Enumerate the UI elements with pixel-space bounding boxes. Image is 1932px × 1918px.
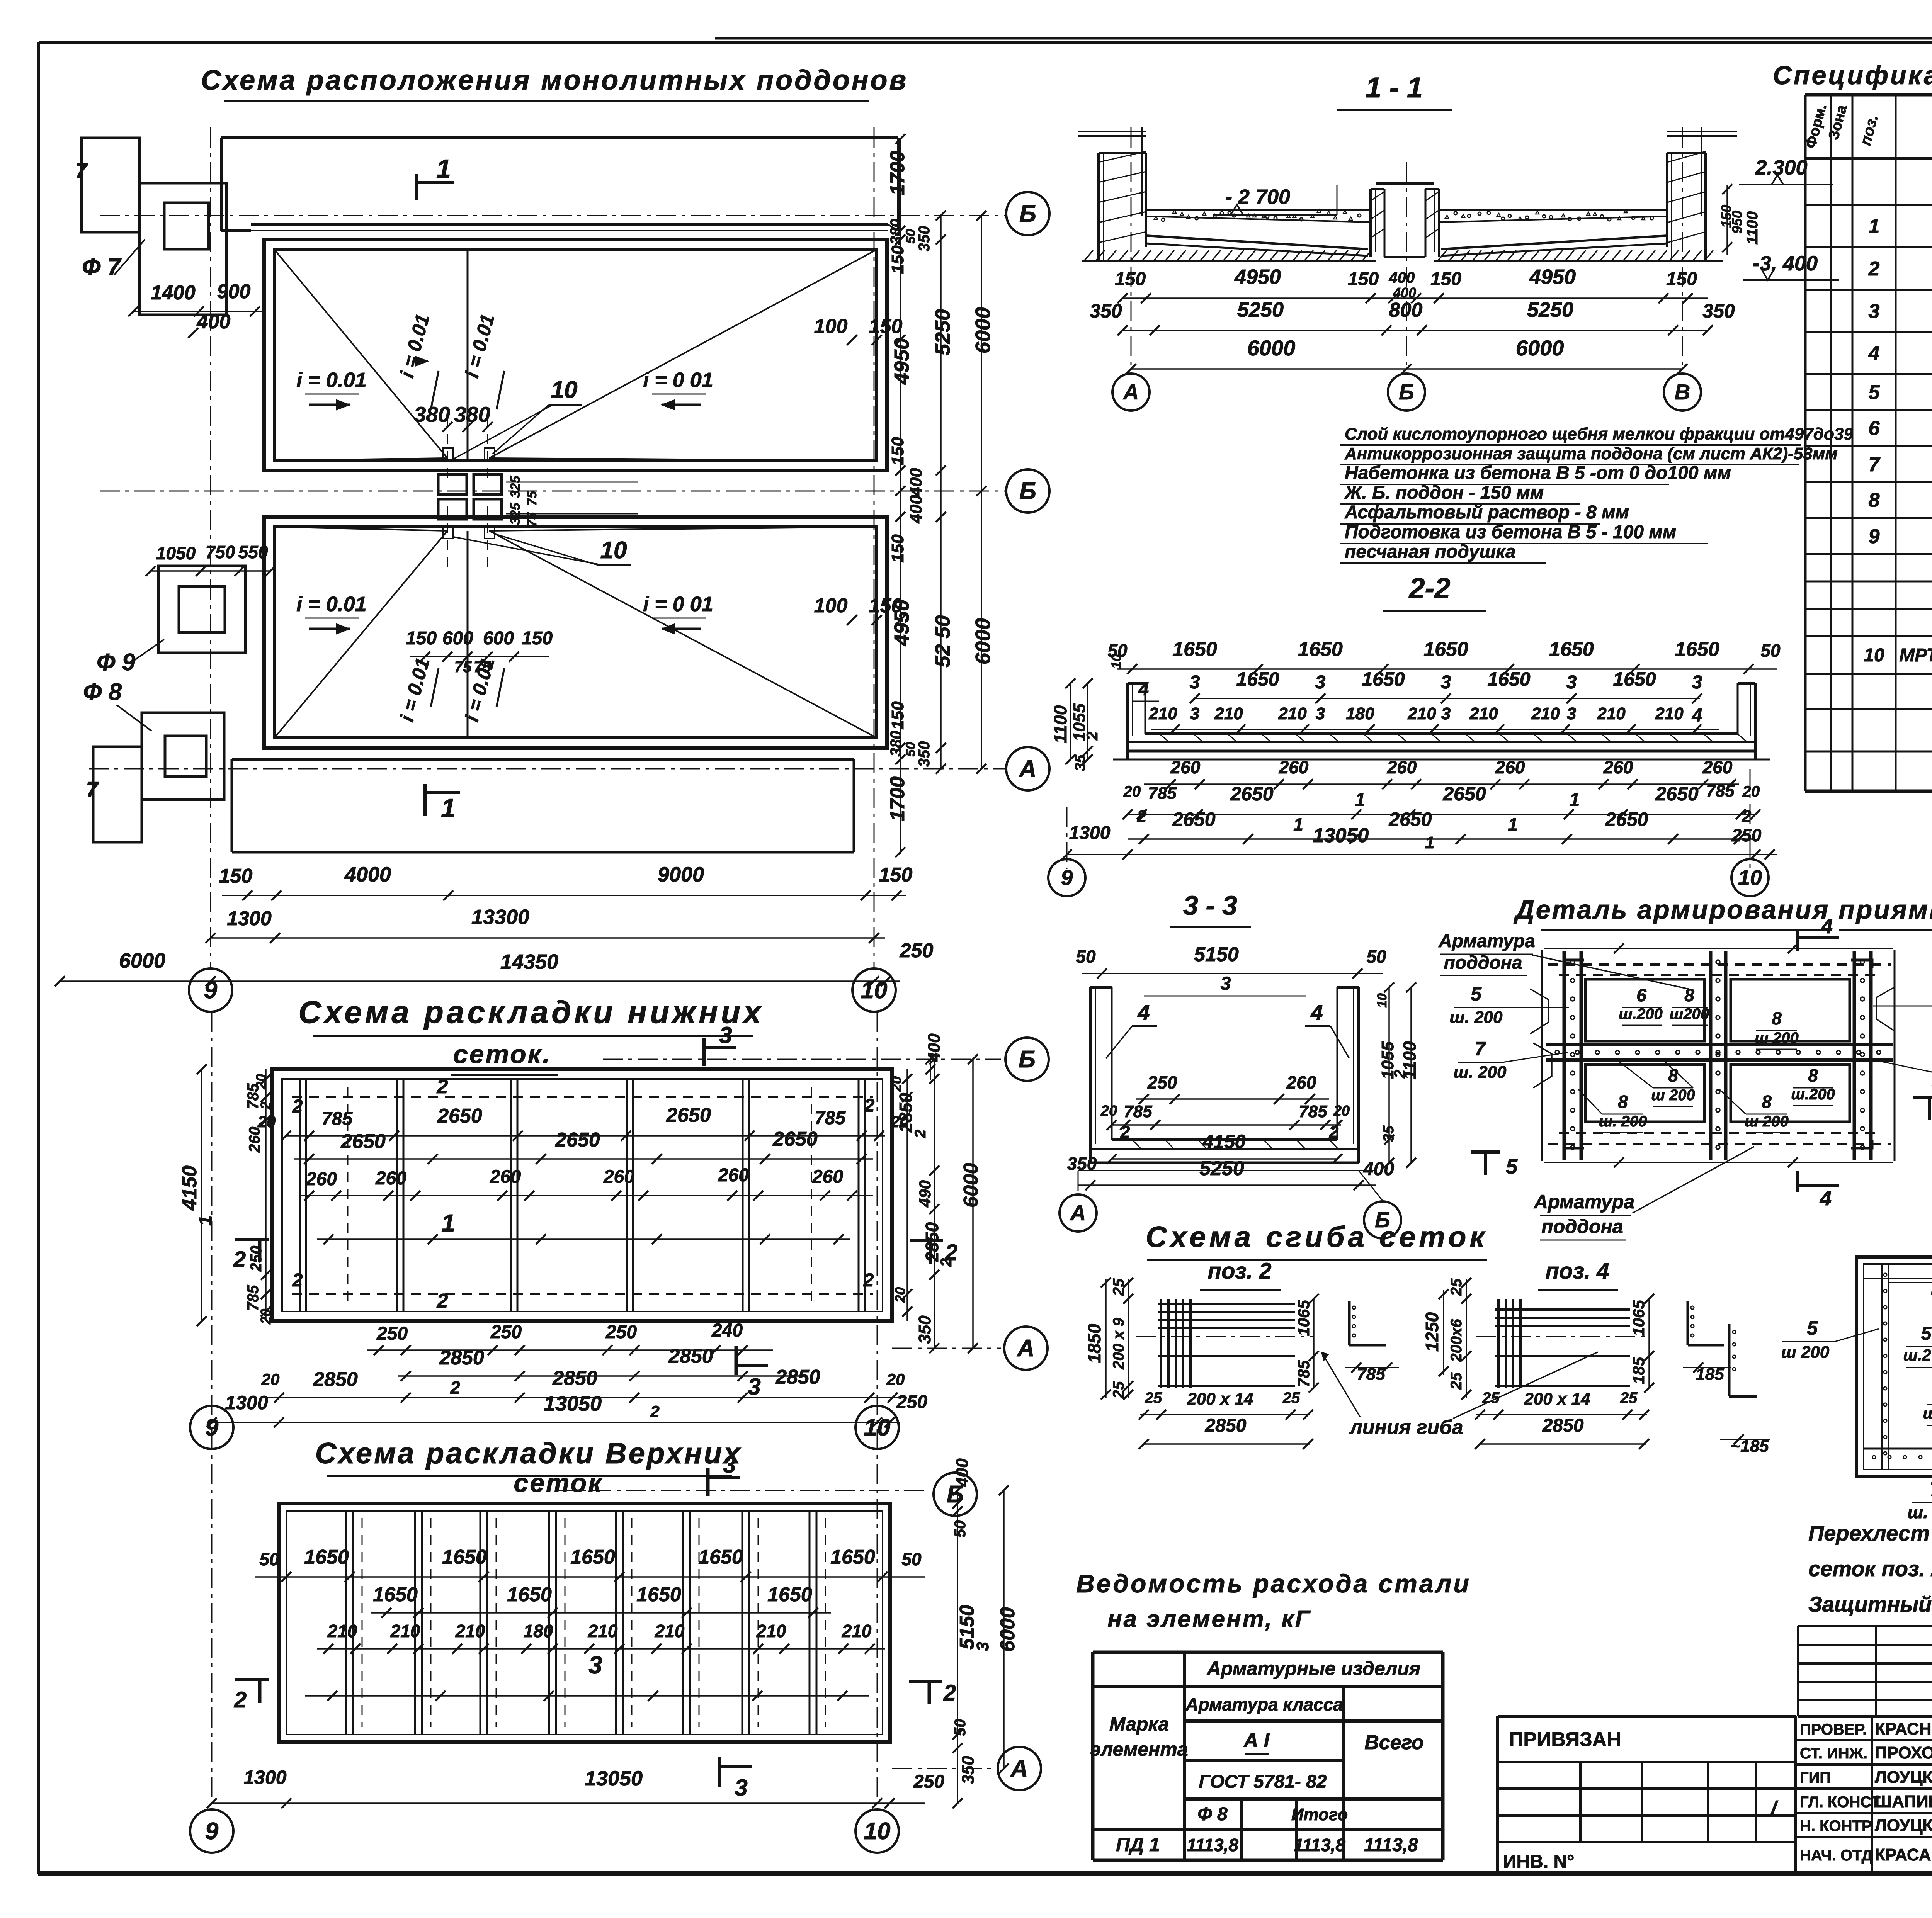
svg-text:25: 25 <box>1282 1390 1300 1407</box>
svg-text:Б: Б <box>1019 478 1036 505</box>
svg-text:25: 25 <box>1145 1390 1162 1407</box>
svg-text:3: 3 <box>1692 672 1702 693</box>
svg-text:3: 3 <box>1190 704 1199 723</box>
svg-text:5250: 5250 <box>1199 1157 1244 1180</box>
svg-text:2650: 2650 <box>1655 783 1698 805</box>
svg-text:3: 3 <box>1441 704 1451 723</box>
svg-text:1: 1 <box>1293 814 1303 834</box>
svg-text:800: 800 <box>1389 299 1423 321</box>
svg-text:2850: 2850 <box>552 1367 597 1390</box>
svg-text:2-2: 2-2 <box>1408 572 1451 604</box>
svg-text:785: 785 <box>1148 784 1177 803</box>
svg-text:линия гиба: линия гиба <box>1349 1416 1463 1439</box>
svg-text:2: 2 <box>292 1270 303 1291</box>
svg-text:Н. КОНТР.: Н. КОНТР. <box>1800 1818 1874 1835</box>
svg-text:150: 150 <box>522 628 553 649</box>
svg-text:Схема сгиба сеток: Схема сгиба сеток <box>1146 1221 1488 1254</box>
axis line Б top <box>100 215 1005 216</box>
svg-text:6: 6 <box>1636 985 1646 1005</box>
svg-text:5: 5 <box>1471 983 1482 1005</box>
svg-text:1650: 1650 <box>507 1583 552 1606</box>
3-3 channel <box>1089 987 1092 1163</box>
svg-text:Марка: Марка <box>1109 1713 1169 1735</box>
svg-text:550: 550 <box>238 542 268 562</box>
svg-text:260: 260 <box>603 1167 634 1187</box>
flag 3 bottom (verkh) <box>718 1757 721 1787</box>
svg-text:1: 1 <box>1355 790 1366 810</box>
svg-text:песчаная подушка: песчаная подушка <box>1345 542 1516 562</box>
poz4 bent corner symbol <box>1687 1301 1689 1345</box>
svg-text:ш 200: ш 200 <box>1745 1113 1788 1130</box>
svg-text:1650: 1650 <box>698 1546 743 1568</box>
svg-text:Спецификация элементов монолит: Спецификация элементов монолитного поддо… <box>1773 61 1932 90</box>
svg-text:ГЛ. КОНСТ: ГЛ. КОНСТ <box>1800 1794 1881 1811</box>
section flag 1 bottom <box>423 784 427 816</box>
svg-text:210: 210 <box>756 1621 786 1641</box>
svg-text:2850: 2850 <box>668 1345 713 1368</box>
svg-text:Арматура: Арматура <box>1533 1191 1634 1213</box>
svg-text:350: 350 <box>915 1315 934 1344</box>
svg-text:3: 3 <box>1316 704 1325 723</box>
svg-text:1850: 1850 <box>1084 1323 1104 1363</box>
svg-text:600: 600 <box>483 628 514 649</box>
svg-text:1700: 1700 <box>886 776 909 821</box>
svg-text:2850: 2850 <box>439 1347 484 1369</box>
axis circle 10 (plan) <box>852 968 896 1012</box>
svg-text:50: 50 <box>259 1549 279 1569</box>
1-1 axis dashdot lines <box>1131 127 1132 371</box>
svg-text:ш.200: ш.200 <box>1791 1086 1835 1103</box>
poz2 mesh sketch <box>1160 1299 1162 1388</box>
svg-text:ПРОХОРОВА: ПРОХОРОВА <box>1875 1743 1932 1762</box>
svg-text:150: 150 <box>406 628 437 649</box>
circles 9 10 between schemes <box>190 1406 233 1449</box>
svg-text:ПРОВЕР.: ПРОВЕР. <box>1800 1721 1867 1738</box>
svg-text:Деталь армирования приямка: Деталь армирования приямка <box>1514 895 1932 924</box>
svg-text:3: 3 <box>1190 672 1200 693</box>
svg-text:20: 20 <box>1100 1103 1117 1119</box>
svg-text:4150: 4150 <box>1202 1131 1245 1152</box>
svg-text:2: 2 <box>863 1270 874 1291</box>
svg-text:20: 20 <box>1333 1103 1350 1119</box>
steel table <box>1093 1651 1443 1654</box>
svg-text:400: 400 <box>906 495 925 524</box>
svg-text:2: 2 <box>233 1247 246 1272</box>
svg-text:350: 350 <box>1090 300 1122 322</box>
svg-text:1650: 1650 <box>373 1583 418 1606</box>
section flag 1 top <box>415 174 418 200</box>
svg-text:260: 260 <box>246 1127 263 1153</box>
svg-text:8: 8 <box>1808 1065 1818 1086</box>
svg-text:1650: 1650 <box>1487 668 1530 690</box>
svg-text:150: 150 <box>888 534 907 563</box>
svg-text:200 x 9: 200 x 9 <box>1110 1318 1127 1370</box>
svg-text:2850: 2850 <box>1542 1415 1584 1436</box>
svg-text:4: 4 <box>1692 705 1702 726</box>
nizhn vertical mesh edges <box>299 1079 301 1312</box>
svg-text:1400: 1400 <box>151 282 196 304</box>
svg-text:1100: 1100 <box>1400 1041 1420 1079</box>
svg-text:1100: 1100 <box>1744 211 1761 245</box>
svg-text:А: А <box>1010 1755 1028 1782</box>
svg-text:785: 785 <box>1124 1102 1152 1121</box>
svg-text:50: 50 <box>901 1549 922 1569</box>
svg-text:7: 7 <box>1930 1478 1932 1500</box>
svg-text:250: 250 <box>376 1323 408 1344</box>
svg-text:2650: 2650 <box>772 1128 818 1150</box>
svg-text:сеток поз. 2: сеток поз. 2 <box>1808 1556 1932 1581</box>
svg-text:i = 0.01: i = 0.01 <box>296 369 367 392</box>
svg-text:Схема раскладки Верхних: Схема раскладки Верхних <box>315 1437 742 1470</box>
svg-text:2650: 2650 <box>1388 809 1432 830</box>
svg-text:5: 5 <box>1921 1323 1932 1344</box>
svg-text:Арматура класса: Арматура класса <box>1185 1694 1343 1714</box>
svg-text:сеток.: сеток. <box>453 1040 551 1069</box>
svg-text:2650: 2650 <box>555 1129 600 1151</box>
svg-text:Ф 8: Ф 8 <box>83 679 122 705</box>
svg-text:785: 785 <box>1706 781 1735 800</box>
svg-text:1065: 1065 <box>1294 1300 1313 1336</box>
svg-text:НАЧ. ОТД: НАЧ. ОТД <box>1800 1847 1872 1864</box>
column F9 <box>158 566 245 653</box>
svg-text:250: 250 <box>900 939 934 962</box>
svg-text:210: 210 <box>1148 704 1177 723</box>
svg-text:210: 210 <box>390 1621 420 1641</box>
axis lines for lower schemes <box>211 1012 213 1804</box>
svg-text:ш. 200: ш. 200 <box>1931 1281 1932 1300</box>
svg-text:Схема раскладки нижних: Схема раскладки нижних <box>298 995 764 1030</box>
svg-text:180: 180 <box>1346 704 1374 723</box>
svg-text:260: 260 <box>1495 757 1525 777</box>
svg-text:1: 1 <box>196 1216 216 1226</box>
svg-text:210: 210 <box>455 1621 485 1641</box>
svg-text:1650: 1650 <box>1675 638 1719 661</box>
svg-text:20: 20 <box>1742 783 1760 800</box>
heavy vertical bars <box>1563 951 1566 1160</box>
revision table small <box>1798 1625 1932 1627</box>
svg-text:785: 785 <box>815 1108 846 1128</box>
svg-text:ш. 200: ш. 200 <box>1450 1008 1503 1027</box>
svg-text:10: 10 <box>600 537 627 564</box>
svg-text:ГОСТ 5781- 82: ГОСТ 5781- 82 <box>1199 1772 1327 1792</box>
svg-text:6000: 6000 <box>119 949 165 972</box>
svg-text:150: 150 <box>1115 269 1146 289</box>
svg-text:1700: 1700 <box>886 151 909 195</box>
svg-text:ш.200: ш.200 <box>1619 1006 1662 1023</box>
svg-text:400: 400 <box>197 311 231 333</box>
svg-text:260: 260 <box>1387 757 1417 777</box>
flag T5 right <box>1913 1096 1932 1099</box>
svg-text:2: 2 <box>450 1378 460 1398</box>
svg-text:2650: 2650 <box>1172 809 1215 830</box>
svg-text:9: 9 <box>204 977 218 1004</box>
svg-text:100: 100 <box>814 315 848 338</box>
svg-text:260: 260 <box>1603 757 1633 777</box>
svg-text:4000: 4000 <box>344 863 391 886</box>
svg-text:260: 260 <box>1702 757 1733 777</box>
svg-text:150: 150 <box>1430 269 1461 289</box>
svg-text:4: 4 <box>1310 1000 1323 1024</box>
svg-text:2: 2 <box>1868 258 1880 280</box>
svg-text:4: 4 <box>1820 1187 1832 1210</box>
svg-text:1650: 1650 <box>636 1583 681 1606</box>
svg-text:260: 260 <box>718 1165 749 1186</box>
svg-text:6000: 6000 <box>997 1607 1019 1652</box>
svg-text:ш. 200: ш. 200 <box>1599 1113 1647 1130</box>
svg-text:260: 260 <box>1286 1072 1316 1092</box>
svg-text:2650: 2650 <box>1442 783 1486 805</box>
svg-text:6000: 6000 <box>971 307 995 353</box>
svg-text:поз. 4: поз. 4 <box>1546 1259 1609 1284</box>
svg-text:260: 260 <box>812 1167 843 1187</box>
svg-text:1650: 1650 <box>570 1546 615 1568</box>
svg-text:1: 1 <box>441 793 456 823</box>
svg-text:250: 250 <box>248 1246 265 1272</box>
svg-text:5250: 5250 <box>1527 298 1573 321</box>
svg-text:75: 75 <box>525 491 539 506</box>
svg-text:260: 260 <box>375 1168 406 1189</box>
svg-text:ш. 200: ш. 200 <box>1923 1404 1932 1422</box>
svg-text:210: 210 <box>1469 704 1498 723</box>
dashed top strip <box>1548 963 1891 966</box>
svg-text:210: 210 <box>1597 704 1626 723</box>
svg-text:210: 210 <box>655 1621 685 1641</box>
svg-text:4: 4 <box>1137 1000 1150 1024</box>
svg-text:1650: 1650 <box>1613 668 1656 690</box>
svg-text:1050: 1050 <box>156 543 196 563</box>
svg-text:380: 380 <box>888 219 905 245</box>
svg-text:325: 325 <box>508 476 523 498</box>
drain marks upper pallet <box>443 448 453 461</box>
svg-text:Б: Б <box>1019 200 1036 227</box>
svg-text:150: 150 <box>869 315 903 338</box>
svg-text:400: 400 <box>925 1033 944 1062</box>
svg-text:350: 350 <box>1067 1154 1097 1174</box>
svg-text:50: 50 <box>952 1520 969 1538</box>
4-4 left corner symbol <box>1728 1324 1731 1396</box>
axis circle Б top <box>1006 192 1049 235</box>
verkh drawing outer <box>279 1503 890 1742</box>
svg-text:785: 785 <box>321 1109 353 1129</box>
svg-text:4950: 4950 <box>890 600 913 646</box>
svg-text:А: А <box>1070 1201 1086 1225</box>
svg-text:350: 350 <box>916 741 933 767</box>
svg-text:Ф 7: Ф 7 <box>82 254 122 280</box>
corner arrows <box>1565 960 1584 968</box>
svg-text:600: 600 <box>442 628 473 649</box>
svg-text:А: А <box>1019 756 1037 782</box>
svg-text:1650: 1650 <box>1423 638 1468 661</box>
svg-text:8: 8 <box>1772 1008 1782 1028</box>
flag T2 right (nizhn) <box>910 1239 943 1242</box>
svg-text:3: 3 <box>1567 704 1576 723</box>
svg-text:2850: 2850 <box>313 1368 358 1391</box>
svg-text:Ф 8: Ф 8 <box>1197 1804 1228 1825</box>
dashed bottom strip <box>1548 1143 1891 1145</box>
axis line А <box>89 768 1005 770</box>
svg-text:2: 2 <box>945 1240 957 1265</box>
2-2 channel profile <box>1126 683 1129 759</box>
svg-text:поддона: поддона <box>1444 953 1522 973</box>
svg-text:элемента: элемента <box>1090 1738 1188 1760</box>
svg-text:3: 3 <box>1315 672 1326 693</box>
svg-text:1: 1 <box>1869 215 1880 238</box>
svg-text:сеток: сеток <box>514 1468 603 1498</box>
svg-text:3: 3 <box>588 1651 602 1679</box>
svg-text:260: 260 <box>306 1169 337 1189</box>
upper pallet diagonals <box>274 250 447 458</box>
svg-text:20: 20 <box>261 1370 280 1388</box>
axis circle Б middle <box>1006 469 1049 513</box>
svg-text:Ведомость расхода стали: Ведомость расхода стали <box>1076 1569 1471 1598</box>
svg-text:Набетонка из бетона В 5: Набетонка из бетона В 5 -от 0 до100 мм <box>1345 463 1731 483</box>
svg-text:260: 260 <box>1279 757 1309 777</box>
nizhn dashed inner lines <box>292 1096 873 1098</box>
svg-text:В: В <box>1675 380 1690 404</box>
svg-text:25: 25 <box>1620 1390 1638 1407</box>
svg-text:2: 2 <box>943 1680 956 1706</box>
svg-text:9: 9 <box>205 1818 219 1845</box>
svg-text:250: 250 <box>490 1322 522 1342</box>
svg-text:2: 2 <box>650 1402 659 1420</box>
svg-text:10: 10 <box>1375 993 1389 1008</box>
svg-text:180: 180 <box>524 1621 553 1641</box>
svg-text:3: 3 <box>735 1775 747 1801</box>
svg-text:Итого: Итого <box>1291 1805 1348 1824</box>
svg-text:260: 260 <box>1170 757 1201 777</box>
axis Б line (nizhn) <box>603 1059 1001 1060</box>
svg-text:350: 350 <box>916 226 933 252</box>
svg-text:9: 9 <box>1869 525 1880 548</box>
svg-text:2.300: 2.300 <box>1755 156 1807 179</box>
priyamok detail drawing <box>1544 948 1893 949</box>
svg-text:2: 2 <box>864 1096 875 1116</box>
svg-text:1: 1 <box>1425 833 1434 852</box>
svg-text:750: 750 <box>206 542 235 562</box>
svg-text:2: 2 <box>437 1290 448 1312</box>
svg-text:Перехлест сеток поз. 4 так: Перехлест сеток поз. 4 такой же как для <box>1808 1521 1932 1545</box>
svg-text:1100: 1100 <box>1050 705 1070 743</box>
svg-text:13050: 13050 <box>585 1767 643 1790</box>
axis Б line (verkh) <box>556 1490 927 1491</box>
axis circle 9 (plan) <box>189 968 232 1012</box>
top band (wall strip) <box>221 136 898 139</box>
svg-text:1: 1 <box>1570 790 1580 810</box>
svg-text:ИНВ. N°: ИНВ. N° <box>1503 1852 1574 1872</box>
svg-text:1: 1 <box>441 1209 455 1237</box>
svg-text:210: 210 <box>327 1621 357 1641</box>
svg-text:3: 3 <box>723 1452 736 1478</box>
svg-text:7: 7 <box>1475 1038 1486 1060</box>
svg-text:3: 3 <box>1221 973 1231 994</box>
1-1 right wall <box>1666 153 1668 247</box>
svg-text:3: 3 <box>1441 672 1451 693</box>
svg-text:4150: 4150 <box>179 1165 201 1211</box>
svg-text:i = 0 01: i = 0 01 <box>643 593 713 616</box>
svg-text:Подготовка из бетона В 5: Подготовка из бетона В 5 - 100 мм <box>1345 522 1676 542</box>
4-4 drawing <box>1857 1257 1932 1476</box>
svg-text:250: 250 <box>605 1322 637 1342</box>
svg-text:Всего: Всего <box>1364 1731 1424 1754</box>
svg-text:350: 350 <box>959 1756 978 1784</box>
svg-text:Схема расположения монолитных: Схема расположения монолитных поддонов <box>201 65 908 96</box>
svg-text:10: 10 <box>551 377 578 403</box>
svg-text:250: 250 <box>913 1772 944 1792</box>
1-1 wall hatch <box>1099 151 1146 162</box>
svg-text:400: 400 <box>906 468 925 497</box>
svg-text:2650: 2650 <box>1230 783 1273 805</box>
svg-text:100: 100 <box>814 595 848 617</box>
svg-text:1113,8: 1113,8 <box>1364 1835 1418 1855</box>
svg-text:5250: 5250 <box>1237 298 1284 321</box>
svg-text:5: 5 <box>1506 1155 1518 1178</box>
svg-text:Асфальтовый раствор - 8 мм: Асфальтовый раствор - 8 мм <box>1344 502 1629 523</box>
svg-text:2850: 2850 <box>775 1366 820 1388</box>
1-1 concrete dots <box>1154 216 1158 219</box>
1-1 right basin slab <box>1439 209 1667 211</box>
svg-text:250: 250 <box>1147 1072 1177 1092</box>
svg-text:на элемент, кГ: на элемент, кГ <box>1107 1606 1311 1633</box>
svg-text:6000: 6000 <box>960 1163 982 1208</box>
svg-text:2650: 2650 <box>340 1130 386 1153</box>
flag 2 left (nizhn) <box>235 1238 269 1241</box>
drain marks lower pallet <box>443 525 453 539</box>
upper pallet outer <box>264 240 887 471</box>
svg-text:10: 10 <box>1864 645 1884 666</box>
svg-text:50: 50 <box>1760 640 1781 661</box>
circles 9 10 bottom (verkh) <box>190 1809 233 1853</box>
poz2 bent corner symbol <box>1348 1301 1351 1345</box>
svg-text:210: 210 <box>1278 704 1307 723</box>
svg-text:ш 200: ш 200 <box>1781 1343 1830 1362</box>
svg-text:ЛОУЦКЕР: ЛОУЦКЕР <box>1875 1768 1932 1787</box>
svg-text:240: 240 <box>711 1320 743 1341</box>
svg-text:52 50: 52 50 <box>931 615 954 667</box>
svg-text:210: 210 <box>842 1621 872 1641</box>
svg-text:1065: 1065 <box>1629 1300 1648 1336</box>
svg-text:А: А <box>1122 380 1139 404</box>
svg-text:1650: 1650 <box>830 1546 875 1568</box>
svg-text:250: 250 <box>896 1392 927 1412</box>
svg-text:Ф 9: Ф 9 <box>97 649 136 676</box>
svg-text:1650: 1650 <box>1172 638 1217 661</box>
verkh centerline <box>305 1695 869 1697</box>
svg-text:1250: 1250 <box>1422 1312 1442 1352</box>
svg-text:1300: 1300 <box>243 1767 286 1788</box>
axis А circle (nizhn) <box>892 1348 1001 1349</box>
svg-text:350: 350 <box>1702 300 1735 322</box>
svg-text:ш 200: ш 200 <box>1651 1087 1695 1104</box>
detail 4 flag bottom <box>1796 1171 1799 1192</box>
svg-text:ш200: ш200 <box>1670 1006 1709 1023</box>
svg-text:10: 10 <box>861 977 888 1004</box>
svg-text:8: 8 <box>1618 1092 1628 1112</box>
column F8 <box>142 713 224 800</box>
svg-text:200 x 14: 200 x 14 <box>1187 1390 1253 1408</box>
flag 2 left (verkh) <box>235 1678 269 1681</box>
svg-text:3: 3 <box>748 1374 760 1400</box>
svg-text:4: 4 <box>1868 342 1880 365</box>
flag 5 left bottom <box>1471 1150 1500 1154</box>
svg-text:210: 210 <box>1214 704 1243 723</box>
nizhn center line with 1 <box>317 1238 850 1240</box>
svg-text:400: 400 <box>1393 285 1416 301</box>
svg-text:9000: 9000 <box>658 863 704 886</box>
svg-text:6000: 6000 <box>1247 336 1296 360</box>
svg-text:10: 10 <box>864 1414 891 1441</box>
svg-text:5: 5 <box>1869 381 1880 404</box>
1-1 center pier pit <box>1369 189 1372 257</box>
